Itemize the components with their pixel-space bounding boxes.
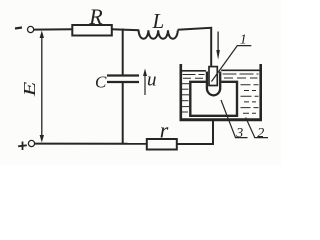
resistor r	[147, 139, 177, 150]
vessel (bath) walls and bottom	[180, 64, 183, 121]
capacitor voltage arrow u	[144, 73, 146, 95]
liquid hatching right strip	[241, 85, 259, 113]
liquid hatching left strip	[182, 84, 189, 112]
svg-text:R: R	[88, 4, 103, 29]
svg-text:L: L	[152, 9, 165, 33]
wire L to top-right corner, down to electrode	[178, 28, 212, 67]
svg-text:u: u	[147, 70, 157, 91]
wire top from terminal to resistor R	[33, 28, 73, 30]
resistor R	[72, 25, 112, 36]
svg-text:C: C	[95, 73, 107, 92]
capacitor branch wire (bottom)	[122, 83, 124, 145]
liquid surface line	[182, 70, 206, 72]
minus sign (top-left source polarity)	[15, 28, 22, 29]
svg-text:1: 1	[240, 33, 247, 48]
svg-text:r: r	[160, 118, 169, 143]
svg-text:2: 2	[257, 126, 264, 141]
plus sign (bottom-left source polarity)	[18, 142, 27, 151]
inductor L (4 humps)	[139, 30, 178, 38]
wire r to vessel	[177, 120, 213, 144]
leader line for label 3	[221, 100, 248, 138]
wire R to L	[111, 28, 139, 31]
capacitor C plates	[107, 74, 139, 76]
wire bottom from terminal to resistor r	[34, 143, 147, 145]
terminal top-left	[28, 26, 34, 32]
leader line for label 1	[212, 46, 252, 82]
current arrow (down, beside right wire)	[217, 32, 219, 52]
source E measuring line with two arrowheads	[41, 33, 43, 140]
U-tube around electrode	[207, 72, 220, 96]
capacitor branch wire (top)	[122, 29, 124, 75]
leader line for label 2	[246, 118, 268, 138]
terminal bottom-left	[28, 140, 34, 146]
svg-text:3: 3	[235, 126, 243, 141]
crucible box (item 3)	[190, 82, 237, 116]
liquid hatching above crucible	[183, 74, 259, 78]
svg-text:E: E	[21, 81, 39, 97]
electrode rod (item 1)	[209, 67, 217, 86]
